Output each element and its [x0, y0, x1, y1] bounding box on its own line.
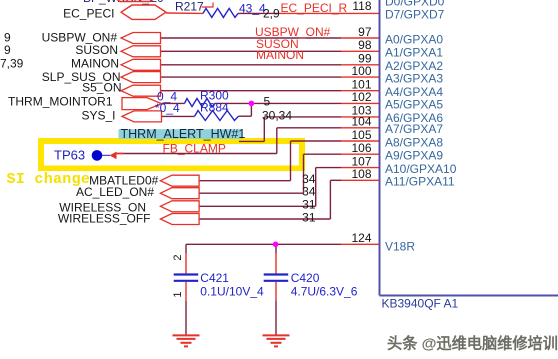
resistor R217 zigzag — [203, 8, 238, 17]
svg-text:31: 31 — [302, 198, 316, 212]
pin 108 red stub — [341, 179, 380, 181]
svg-text:TP63: TP63 — [54, 148, 85, 163]
wire C421 top — [185, 244, 187, 253]
svg-text:MAINON: MAINON — [71, 57, 119, 71]
svg-text:2: 2 — [172, 254, 184, 260]
input tag S5_ON — [121, 85, 161, 96]
cyan highlight label THRM_ALERT_HW#1 — [119, 127, 246, 141]
chip KB3940QF bottom edge — [380, 295, 558, 297]
wire riser pin 107 — [315, 168, 317, 207]
svg-text:4.7U/6.3V_6: 4.7U/6.3V_6 — [291, 285, 358, 299]
pin 99 red stub — [341, 64, 380, 66]
ground under C421 — [173, 335, 200, 346]
svg-text:THRM_MOINTOR1: THRM_MOINTOR1 — [8, 95, 113, 109]
wire pin 106 stub — [304, 153, 342, 155]
svg-text:A0/GPXA0: A0/GPXA0 — [385, 32, 443, 46]
svg-text:C420: C420 — [291, 271, 320, 285]
svg-text:A5/GPXA5: A5/GPXA5 — [385, 98, 443, 112]
resistor R217 designator tick — [202, 3, 214, 8]
test point TP63 dot — [92, 150, 103, 161]
input tag SUSON — [121, 46, 161, 57]
input tag USBPW_ON# — [121, 33, 161, 44]
svg-text:EC_PECI_R: EC_PECI_R — [281, 1, 348, 15]
capacitor C420 plates — [264, 273, 289, 275]
wire pin 105 stub — [291, 140, 342, 142]
FB_CLAMP arrow head — [110, 152, 117, 160]
svg-text:*0_4: *0_4 — [155, 101, 180, 115]
svg-text:SUSON: SUSON — [75, 43, 118, 57]
wire riser pin 105 — [290, 141, 292, 181]
input tag WIRELESS_ON — [160, 201, 199, 212]
off-page connector hexagon EC_PECI — [121, 5, 203, 19]
wire R884 out — [239, 115, 252, 117]
wire WIRELESS_ON — [199, 205, 316, 207]
svg-text:106: 106 — [351, 141, 371, 155]
wire C420 bottom — [275, 282, 277, 301]
svg-text:A3/GPXA3: A3/GPXA3 — [385, 71, 443, 85]
yellow highlight box around TP63/FB_CLAMP — [38, 138, 305, 171]
svg-text:31: 31 — [302, 211, 316, 225]
wire AC_LED_ON# — [199, 192, 303, 194]
svg-text:D7/GPXD7: D7/GPXD7 — [385, 7, 445, 21]
svg-text:43_4: 43_4 — [239, 2, 266, 16]
wire EC_PECI_R middle segment — [238, 12, 277, 14]
wire WIRELESS_OFF — [199, 218, 330, 220]
svg-text:FB_CLAMP: FB_CLAMP — [163, 141, 226, 155]
svg-text:EC_PECI: EC_PECI — [63, 7, 114, 21]
ground under C420 — [263, 335, 290, 346]
svg-text:THRM_ALERT_HW#1: THRM_ALERT_HW#1 — [121, 127, 246, 141]
svg-text:WIRELESS_OFF: WIRELESS_OFF — [58, 212, 151, 226]
input tag MBATLED0# — [160, 175, 199, 186]
svg-text:2,9: 2,9 — [263, 7, 280, 21]
svg-text:98: 98 — [358, 38, 372, 52]
wire FB_CLAMP — [116, 153, 277, 155]
wire riser pin 106 — [303, 154, 305, 193]
pin 124 red stub — [341, 243, 380, 245]
wire riser pin 103 — [263, 117, 265, 141]
junction dot R300/R884 to pin 102 — [249, 101, 255, 107]
wire C420 top — [275, 244, 277, 253]
pin 118 red stub — [277, 12, 380, 14]
svg-text:A8/GPXA8: A8/GPXA8 — [385, 135, 443, 149]
wire pin 107 stub — [316, 167, 341, 169]
svg-text:108: 108 — [351, 167, 371, 181]
wire R300 out to pin 102 — [215, 102, 341, 104]
pin 107 red stub — [341, 167, 380, 169]
svg-text:100: 100 — [351, 64, 371, 78]
input tag MAINON — [121, 59, 161, 70]
pin 97 red stub — [341, 37, 380, 39]
wire riser pin 104 — [276, 128, 278, 154]
FB_CLAMP red tail — [116, 153, 124, 155]
pin 103 red stub — [341, 116, 380, 118]
pin 101 red stub — [341, 90, 380, 92]
pin 105 red stub — [341, 140, 380, 142]
pin 104 red stub — [341, 127, 380, 129]
svg-text:S5_ON: S5_ON — [82, 81, 121, 95]
wire SYS_I to R884 — [162, 115, 195, 117]
svg-text:30,34: 30,34 — [262, 109, 292, 123]
svg-text:A1/GPXA1: A1/GPXA1 — [385, 46, 443, 60]
wire pin 108 stub — [330, 179, 341, 181]
svg-text:9: 9 — [4, 43, 11, 57]
svg-text:A7/GPXA7: A7/GPXA7 — [385, 122, 443, 136]
svg-text:MAINON: MAINON — [256, 48, 304, 62]
wire USBPW_ON# to pin 97 — [161, 37, 342, 39]
wire MBATLED0# — [199, 180, 290, 182]
junction dot C420 at pin 124 net — [273, 242, 279, 248]
pin 102 red stub — [341, 102, 380, 104]
svg-text:102: 102 — [351, 90, 371, 104]
wire pin 103 stub — [264, 116, 341, 118]
wire SUSON to pin 98 — [161, 50, 342, 52]
wire riser pin 108 — [329, 180, 331, 219]
input tag WIRELESS_OFF — [160, 214, 199, 225]
svg-text:AC_LED_ON#: AC_LED_ON# — [76, 185, 154, 199]
wire MAINON to pin 99 — [161, 64, 342, 66]
svg-text:104: 104 — [351, 115, 371, 129]
svg-text:SYS_I: SYS_I — [81, 109, 115, 123]
wire V18R to pin 124 — [186, 243, 341, 245]
resistor R884 zigzag — [195, 111, 239, 121]
svg-text:97: 97 — [358, 25, 372, 39]
watermark — [387, 335, 558, 353]
svg-text:A11/GPXA11: A11/GPXA11 — [385, 175, 455, 189]
svg-text:7,39: 7,39 — [0, 57, 24, 71]
svg-text:R217: R217 — [175, 0, 204, 14]
pin 100 red stub — [341, 76, 380, 78]
wire pin 104 stub — [277, 127, 341, 129]
svg-text:118: 118 — [352, 0, 371, 13]
resistor R300 zigzag — [185, 99, 216, 107]
svg-text:KB3940QF A1: KB3940QF A1 — [382, 297, 459, 311]
svg-text:头条 @迅维电脑维修培训: 头条 @迅维电脑维修培训 — [387, 335, 558, 353]
svg-text:5: 5 — [264, 95, 271, 109]
svg-text:124: 124 — [351, 231, 371, 245]
svg-text:V18R: V18R — [385, 239, 415, 253]
input tag SLP_SUS_ON — [121, 72, 161, 83]
chip KB3940QF left edge — [379, 0, 381, 296]
svg-text:1: 1 — [172, 291, 184, 297]
clipped net name BP_WRSN_E0 (top edge, cut off) — [83, 0, 164, 5]
wire SLP_SUS_ON to pin 100 — [161, 76, 342, 78]
input tag AC_LED_ON# — [160, 188, 199, 199]
wire THRM_MOINTOR1 to R300 — [162, 102, 185, 104]
svg-text:34: 34 — [302, 185, 316, 199]
capacitor C421 plates — [174, 273, 199, 275]
wire S5_ON to pin 101 — [161, 90, 342, 92]
pin 106 red stub — [341, 153, 380, 155]
svg-text:R884: R884 — [200, 101, 229, 115]
clipped hexagon top (cut off at top edge) — [110, 0, 160, 2]
wire THRM_ALERT_HW#1 — [239, 140, 264, 142]
svg-text:C421: C421 — [200, 271, 229, 285]
svg-text:0.1U/10V_4: 0.1U/10V_4 — [200, 285, 264, 299]
wire C421 bottom — [185, 282, 187, 301]
svg-text:A9/GPXA9: A9/GPXA9 — [385, 149, 443, 163]
wire riser R884 to junction — [250, 103, 252, 116]
svg-text:105: 105 — [351, 128, 371, 142]
TP63 stub — [102, 154, 110, 156]
input tag SYS_I — [122, 111, 162, 122]
output tag THRM_MOINTOR1 (points right) — [122, 98, 162, 110]
pin 98 red stub — [341, 50, 380, 52]
